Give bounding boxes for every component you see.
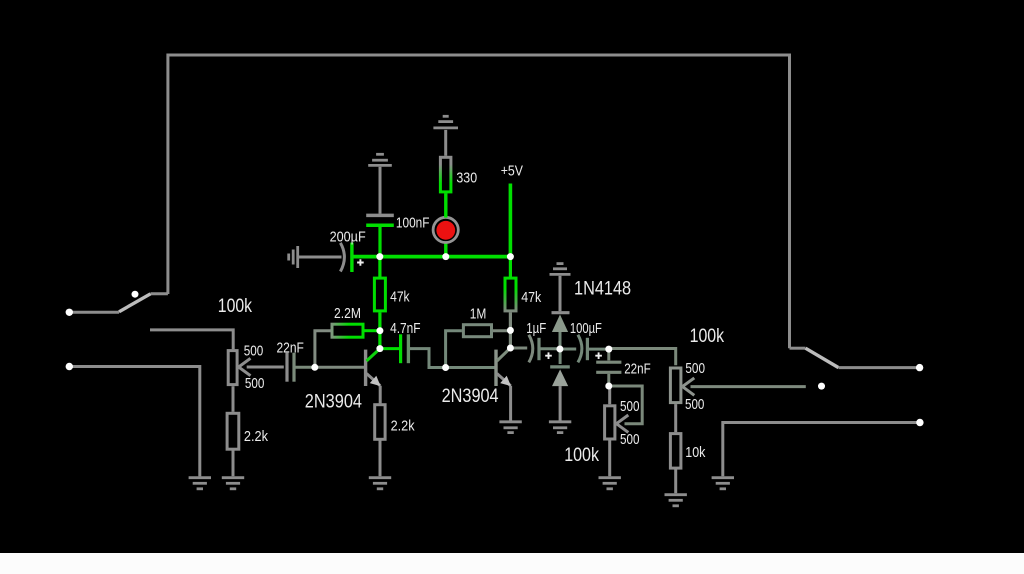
label 4.7nF — [390, 320, 421, 337]
wire +5V bus — [353, 255, 511, 259]
label 2.2k emitter — [391, 418, 415, 435]
svg-text:500: 500 — [685, 396, 704, 413]
svg-text:500: 500 — [620, 431, 640, 448]
ground (R6 bottom) — [665, 495, 687, 506]
svg-text:2.2k: 2.2k — [244, 428, 269, 445]
node bus/LED junction — [442, 253, 449, 260]
post (SW1 terminal) — [66, 309, 73, 316]
post (SW1 open contact) — [132, 291, 139, 298]
ground (left of C7 200uF) — [289, 246, 298, 268]
diode D2 1N4148 (clamp up) — [552, 276, 570, 349]
capacitor C7 200uF (polarized) — [299, 243, 364, 272]
post (SW2 open contact) — [818, 383, 825, 390]
svg-text:22nF: 22nF — [277, 340, 304, 357]
ground (above R7 330) — [433, 116, 458, 128]
resistor R2 2.2M — [315, 324, 380, 364]
resistor R7 330 — [440, 130, 451, 192]
transistor Q1 2N3904 — [366, 349, 381, 404]
wire collector2 — [509, 330, 512, 348]
capacitor C1 22nF (left) — [287, 353, 315, 382]
svg-text:4.7nF: 4.7nF — [390, 320, 421, 337]
ground (above C6 100nF) — [368, 154, 392, 165]
node collector1 upper junction — [376, 327, 383, 334]
diode D3 1N4148 (clamp down) — [550, 349, 570, 421]
node diode junction — [556, 346, 563, 353]
node bus/100nF junction — [376, 253, 383, 260]
resistor R6 10k — [670, 434, 681, 494]
wire base1 — [315, 366, 364, 369]
post (left input terminal) — [66, 363, 73, 370]
ground (left input) — [189, 478, 211, 489]
label 2N3904 left — [305, 391, 362, 413]
label 100k right — [690, 325, 725, 347]
label +5V — [501, 163, 523, 180]
ground (emitter Q1) — [369, 478, 391, 489]
label 500 P3 upper — [620, 398, 640, 415]
svg-text:2N3904: 2N3904 — [305, 391, 362, 413]
svg-text:200µF: 200µF — [330, 228, 366, 245]
capacitor C6 100nF — [366, 167, 394, 257]
svg-text:100k: 100k — [218, 295, 252, 317]
label 330 — [456, 169, 477, 186]
label 200uF — [330, 228, 366, 245]
label 100k left — [218, 295, 252, 317]
label 47k left — [390, 289, 410, 306]
svg-text:500: 500 — [620, 398, 640, 415]
capacitor C3 1uF (polarized) — [510, 335, 560, 363]
capacitor C4 100uF (polarized) — [560, 335, 609, 363]
transistor Q2 2N3904 — [496, 348, 511, 421]
wire to pot P2 — [609, 349, 676, 366]
resistor R1 47k (left) — [374, 257, 385, 331]
ground (P3 bottom) — [599, 478, 621, 489]
wire top loop — [168, 55, 790, 348]
svg-text:2.2M: 2.2M — [334, 305, 361, 322]
svg-text:47k: 47k — [390, 289, 410, 306]
svg-text:100k: 100k — [690, 325, 725, 347]
label 22nF left — [277, 340, 304, 357]
switch SW2 (right, open) — [790, 348, 920, 367]
post (SW2 terminal) — [916, 364, 923, 371]
svg-text:1M: 1M — [470, 305, 487, 322]
svg-text:330: 330 — [456, 169, 477, 186]
label 2N3904 right — [442, 385, 499, 407]
resistor R4 1M — [446, 325, 511, 368]
+5V supply stub — [509, 184, 513, 257]
svg-text:500: 500 — [244, 343, 264, 360]
resistor R3 2.2k (emitter Q1) — [375, 405, 385, 477]
ground (R8 bottom) — [222, 478, 244, 489]
potentiometer P3 100k (middle) — [605, 386, 629, 476]
label 10k — [685, 444, 706, 461]
potentiometer P2 100k (right) — [670, 368, 805, 432]
label 500 P2 upper — [685, 360, 705, 377]
resistor R8 2.2k (left) — [227, 386, 239, 476]
svg-text:+5V: +5V — [501, 163, 523, 180]
wire pot P3 wiper jog — [609, 386, 642, 424]
label 2.2M — [334, 305, 361, 322]
node base2 junction — [442, 364, 449, 371]
svg-text:47k: 47k — [521, 289, 541, 306]
svg-text:500: 500 — [685, 360, 705, 377]
label 47k right — [521, 289, 541, 306]
resistor R5 47k (right) — [505, 257, 516, 331]
node bus/+5V junction — [507, 253, 514, 260]
label 1N4148 — [574, 278, 631, 300]
potentiometer P1 100k (left input) — [228, 351, 284, 385]
label 100k middle — [564, 444, 599, 466]
wire base2 — [446, 366, 495, 369]
switch SW1 (left, open) — [69, 294, 168, 313]
label 1uF — [526, 320, 546, 337]
wire bottom right to ground — [723, 423, 920, 477]
label 500 P3 lower — [620, 431, 640, 448]
label 2.2k left — [244, 428, 269, 445]
svg-text:1µF: 1µF — [526, 320, 546, 337]
svg-text:2N3904: 2N3904 — [442, 385, 499, 407]
svg-text:10k: 10k — [685, 444, 706, 461]
wire stub to pot R-in top — [150, 330, 233, 349]
wire collector1 — [378, 331, 381, 349]
wire left input to ground — [69, 367, 200, 477]
capacitor C2 4.7nF — [380, 334, 446, 367]
svg-text:100µF: 100µF — [570, 320, 602, 337]
label 1M — [470, 305, 487, 322]
label 22nF right — [624, 361, 651, 378]
node C4 right junction — [605, 346, 612, 353]
label 100nF — [396, 215, 430, 232]
node collector1 junction — [376, 345, 383, 352]
svg-text:22nF: 22nF — [624, 361, 651, 378]
ground (below D3) — [549, 422, 571, 433]
svg-text:1N4148: 1N4148 — [574, 278, 631, 300]
LED D1 — [433, 193, 458, 256]
svg-text:500: 500 — [245, 375, 265, 392]
label 500 P2 lower — [685, 396, 704, 413]
ground (emitter Q2) — [499, 422, 521, 433]
capacitor C5 22nF (right) — [596, 349, 621, 386]
ground (above D2) — [550, 264, 571, 275]
node collector2 upper junction — [507, 327, 514, 334]
svg-text:100nF: 100nF — [396, 215, 430, 232]
node collector2 junction — [507, 345, 514, 352]
post (bottom right terminal) — [916, 419, 923, 426]
node C5 bottom junction — [605, 383, 612, 390]
svg-text:2.2k: 2.2k — [391, 418, 415, 435]
label 100uF — [570, 320, 602, 337]
svg-text:100k: 100k — [564, 444, 599, 466]
label 500 P1 lower — [245, 375, 265, 392]
ground (bottom wire) — [712, 478, 734, 489]
label 500 P1 upper — [244, 343, 264, 360]
node base1 junction — [311, 364, 318, 371]
